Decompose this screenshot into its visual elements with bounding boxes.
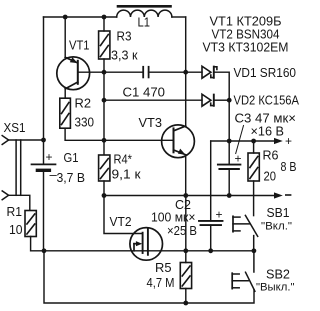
- resistor R3: [99, 31, 110, 59]
- svg-text:SB2: SB2: [266, 268, 290, 282]
- wire minus output line: [104, 195, 275, 197]
- wire bottom return line: [44, 251, 254, 303]
- svg-text:SB1: SB1: [267, 206, 290, 220]
- wire VT1 emitter lead: [64, 17, 66, 57]
- wire R4 bottom to minus line: [103, 181, 105, 196]
- wire top rail: [44, 16, 117, 18]
- svg-text:×25 В: ×25 В: [167, 224, 197, 238]
- wire VD1 anode lead: [186, 71, 202, 73]
- node XS1 pin1 wire: [8, 139, 43, 141]
- wire VD2 anode line from node C: [104, 99, 202, 101]
- wire C2 bottom lead: [210, 225, 212, 251]
- svg-text:С3 47 мк×: С3 47 мк×: [235, 112, 297, 126]
- svg-text:100 мк×: 100 мк×: [151, 211, 196, 225]
- svg-text:VT3: VT3: [139, 116, 163, 130]
- wire VT3 emitter node down to rail: [185, 196, 187, 251]
- connector XS1 pin1 arrow: [2, 136, 8, 145]
- resistor R6: [248, 153, 259, 181]
- wire R5 top lead: [185, 251, 187, 263]
- inductor L1: [117, 6, 172, 17]
- svg-text:R2: R2: [75, 97, 92, 111]
- wire C3 bottom lead: [228, 169, 230, 196]
- svg-text:VT2: VT2: [110, 215, 132, 229]
- output arrow minus: [274, 192, 283, 198]
- wire plus output line: [211, 140, 275, 142]
- wire VT3 collector vertical: [185, 17, 187, 126]
- capacitor C3: [218, 165, 241, 169]
- wire C3 top lead: [228, 141, 230, 165]
- svg-text:R1: R1: [7, 205, 23, 219]
- svg-text:VT1 КТ209Б: VT1 КТ209Б: [210, 15, 282, 29]
- wire R2 bottom to base line: [65, 128, 174, 140]
- svg-text:R3: R3: [117, 30, 132, 44]
- svg-text:330: 330: [75, 116, 95, 130]
- wire R3 top lead: [103, 17, 105, 31]
- wire G1 minus to bottom rail: [43, 172, 45, 251]
- svg-text:3,7 В: 3,7 В: [57, 171, 86, 185]
- capacitor C2: [199, 221, 223, 225]
- svg-text:R4*: R4*: [114, 153, 133, 167]
- svg-text:×16 В: ×16 В: [251, 125, 285, 139]
- diode VD1: [202, 66, 217, 78]
- wire gate branch: [104, 196, 143, 234]
- wire VT1 collector to R2: [64, 89, 66, 98]
- output minus dash: [286, 194, 291, 196]
- switch SB2: [232, 251, 255, 291]
- svg-text:"Выкл.": "Выкл.": [256, 282, 295, 294]
- transistor VT3: [162, 125, 195, 158]
- wire node-C vertical R3 to R4: [103, 59, 105, 155]
- svg-text:4,7 М: 4,7 М: [147, 276, 175, 290]
- wire C2 top lead from plus line: [210, 141, 212, 221]
- transistor VT2: [130, 228, 163, 261]
- wire VT1 base lead: [79, 71, 104, 73]
- diode VD2 zener: [202, 94, 214, 106]
- svg-text:VT3 КТ3102ЕМ: VT3 КТ3102ЕМ: [203, 41, 289, 55]
- wire C1 right lead: [149, 71, 186, 73]
- svg-text:VT1: VT1: [69, 39, 90, 53]
- resistor R2: [60, 98, 71, 128]
- capacitor C1: [143, 67, 148, 78]
- svg-text:R6: R6: [263, 149, 279, 163]
- svg-text:+: +: [285, 134, 292, 148]
- connector XS1 pin2 arrow: [2, 191, 8, 200]
- svg-text:+: +: [216, 208, 223, 222]
- svg-text:+: +: [46, 150, 53, 164]
- resistor R5: [180, 263, 191, 289]
- svg-text:XS1: XS1: [4, 121, 26, 135]
- wire VT3 emitter lead: [185, 155, 187, 196]
- switch SB1: [233, 215, 258, 250]
- wire R6 bottom to SB1: [253, 181, 255, 216]
- wire XS1 pin2 to R1: [8, 195, 30, 210]
- svg-text:VD1 SR160: VD1 SR160: [234, 66, 297, 80]
- wire R1 bottom to rail: [31, 237, 254, 251]
- svg-text:G1: G1: [64, 151, 79, 165]
- svg-text:C1 470: C1 470: [123, 86, 166, 100]
- svg-text:20: 20: [264, 170, 277, 184]
- wire R6 top lead: [253, 141, 255, 153]
- battery G1: [32, 164, 56, 170]
- wire C1 left lead: [104, 71, 143, 73]
- connector XS1 body lines: [15, 140, 17, 195]
- svg-text:VT2 BSN304: VT2 BSN304: [212, 28, 280, 42]
- wire L1 right end to corner: [172, 16, 186, 18]
- leader line C3 label: [236, 126, 244, 154]
- wire R5 bottom lead: [185, 289, 187, 304]
- svg-text:L1: L1: [138, 16, 151, 30]
- svg-text:9,1 к: 9,1 к: [112, 168, 142, 182]
- transistor VT1: [57, 57, 90, 90]
- svg-text:8 В: 8 В: [281, 160, 297, 174]
- svg-text:R5: R5: [155, 261, 172, 275]
- wire VD2 cathode lead: [215, 99, 229, 101]
- svg-text:"Вкл.": "Вкл.": [261, 221, 292, 233]
- output arrow plus: [274, 138, 283, 144]
- svg-text:+: +: [235, 152, 242, 166]
- wire left vertical (battery branch): [43, 17, 45, 164]
- wire VD1 cathode to corner down: [215, 72, 229, 141]
- resistor R1: [25, 211, 36, 237]
- svg-text:3,3 к: 3,3 к: [111, 49, 138, 63]
- svg-text:VD2 КС156А: VD2 КС156А: [234, 94, 300, 108]
- resistor R4: [99, 155, 110, 181]
- svg-text:10: 10: [9, 223, 23, 237]
